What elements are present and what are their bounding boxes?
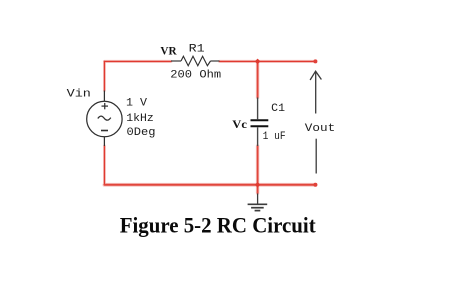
sine wave of source	[98, 116, 111, 120]
wire top-left horizontal	[104, 60, 171, 62]
ground	[248, 194, 268, 211]
svg-text:Vout: Vout	[305, 123, 335, 135]
svg-text:1kHz: 1kHz	[126, 113, 154, 125]
wire top-right horizontal	[220, 60, 316, 62]
Vout arrow	[310, 71, 321, 173]
svg-text:1 V: 1 V	[126, 98, 147, 110]
svg-text:VR: VR	[160, 43, 177, 57]
wire left vertical lower	[103, 146, 105, 185]
wire left vertical upper	[103, 61, 105, 90]
resistor R1	[171, 56, 220, 65]
svg-text:1 uF: 1 uF	[263, 131, 286, 143]
wire capacitor branch lower	[257, 146, 259, 185]
node junction dot bottom capacitor	[255, 182, 261, 188]
node terminal dot top right	[313, 59, 317, 63]
node terminal dot bottom right	[313, 183, 317, 187]
svg-text:C1: C1	[271, 103, 285, 115]
wire ground stub red	[257, 185, 259, 193]
node junction dot top capacitor	[255, 59, 261, 65]
svg-text:0Deg: 0Deg	[127, 127, 156, 139]
wire halos	[104, 61, 315, 193]
voltage source V1	[87, 91, 122, 147]
svg-text:Vin: Vin	[67, 89, 91, 101]
wire capacitor branch upper	[257, 61, 259, 97]
capacitor C1	[251, 98, 269, 147]
minus sign of source	[101, 130, 108, 132]
svg-text:R1: R1	[189, 43, 205, 55]
svg-text:200 Ohm: 200 Ohm	[170, 69, 221, 81]
svg-text:Vc: Vc	[232, 117, 247, 131]
svg-text:Figure 5-2 RC Circuit: Figure 5-2 RC Circuit	[120, 213, 316, 238]
wire bottom horizontal	[104, 184, 315, 186]
plus sign of source	[102, 105, 109, 107]
